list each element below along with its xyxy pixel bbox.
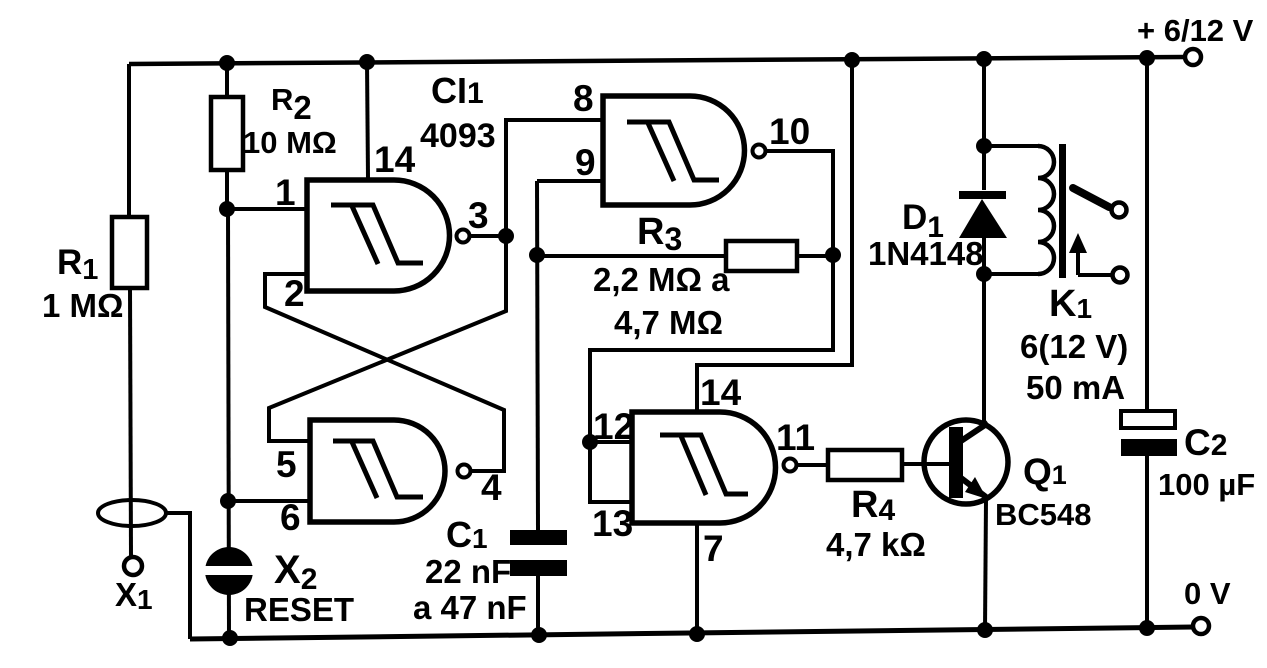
svg-text:10 MΩ: 10 MΩ: [243, 125, 337, 160]
svg-text:10: 10: [769, 111, 810, 152]
svg-text:4,7 MΩ: 4,7 MΩ: [614, 304, 723, 341]
svg-text:4093: 4093: [420, 117, 496, 155]
svg-text:2,2 MΩ a: 2,2 MΩ a: [593, 261, 730, 298]
svg-text:22 nF: 22 nF: [425, 553, 511, 590]
svg-text:11: 11: [776, 417, 815, 458]
svg-text:9: 9: [575, 142, 596, 183]
svg-text:3: 3: [468, 195, 489, 236]
svg-text:4,7 kΩ: 4,7 kΩ: [826, 526, 926, 563]
svg-text:8: 8: [573, 78, 594, 119]
svg-text:6(12 V): 6(12 V): [1020, 328, 1128, 365]
svg-text:6: 6: [280, 497, 301, 538]
svg-text:50 mA: 50 mA: [1026, 369, 1125, 406]
svg-text:14: 14: [374, 139, 416, 180]
svg-text:13: 13: [592, 503, 633, 544]
svg-text:7: 7: [703, 528, 724, 569]
svg-text:4: 4: [481, 467, 502, 508]
svg-text:1N4148: 1N4148: [868, 235, 984, 272]
svg-text:100 µF: 100 µF: [1158, 467, 1255, 502]
svg-text:5: 5: [276, 444, 297, 485]
svg-text:1: 1: [275, 172, 296, 213]
svg-text:RESET: RESET: [244, 591, 354, 628]
svg-text:a 47 nF: a 47 nF: [413, 589, 527, 626]
svg-text:14: 14: [700, 372, 742, 413]
svg-text:+ 6/12 V: + 6/12 V: [1137, 13, 1254, 48]
svg-text:CI1: CI1: [431, 70, 484, 111]
svg-text:12: 12: [593, 406, 634, 447]
svg-text:2: 2: [284, 273, 305, 314]
svg-text:C2: C2: [1184, 422, 1227, 463]
svg-text:0 V: 0 V: [1184, 576, 1231, 611]
svg-text:1 MΩ: 1 MΩ: [42, 287, 123, 324]
svg-text:BC548: BC548: [995, 497, 1092, 532]
